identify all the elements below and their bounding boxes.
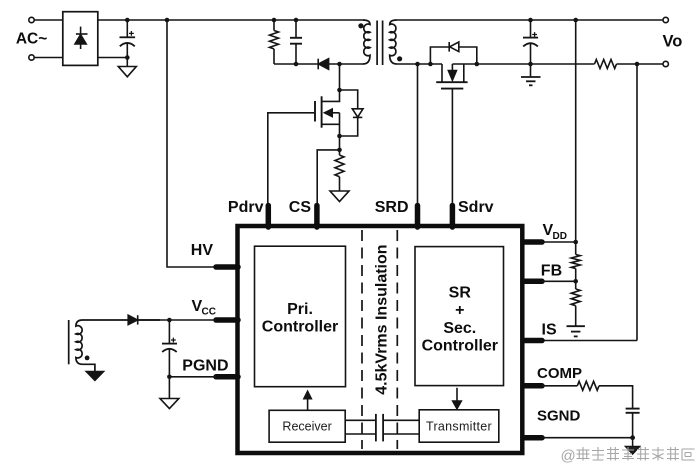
node snubber C bottom [294,62,299,67]
Vo terminal top [663,17,668,22]
pin COMP [523,383,542,389]
pin SGND [523,435,542,441]
svg-text:AC~: AC~ [16,31,47,48]
node bulk cap bottom [125,55,130,60]
node CS [337,148,342,153]
wire bridge bottom right to bulk cap [98,57,128,59]
svg-text:COMP: COMP [537,365,582,382]
aux winding [76,320,160,371]
svg-text:@: @ [561,448,576,465]
FB divider resistor R4 [571,242,580,281]
VCC diode D5 [128,315,138,324]
node SGND [630,435,635,440]
insulation dashed line left [361,230,363,449]
wire bulk cap leads [126,20,128,67]
ground aux winding (solid) [86,371,105,381]
pin Sdrv [450,206,456,228]
bridge diode D1 [75,27,88,49]
wire secondary top rail [397,19,664,21]
svg-text:IS: IS [542,321,557,338]
isolation link wires [345,420,419,434]
wire HV riser [167,20,214,267]
svg-text:PGND: PGND [182,357,228,374]
svg-text:Controller: Controller [262,318,338,335]
earth ground under output cap [521,77,541,85]
junction dots primary side [125,18,639,153]
svg-text:Sec.: Sec. [443,320,476,337]
svg-text:Controller: Controller [422,337,498,354]
aux winding core line [68,320,70,364]
wire FB row [542,280,576,282]
svg-text:SRD: SRD [375,199,409,216]
wire snubber cap leads [295,20,297,64]
arrow SR controller to transmitter [452,388,462,410]
svg-text:CC: CC [202,307,216,318]
svg-text:SR: SR [449,285,472,302]
wire VDD row [542,241,576,243]
wire output cap leads [530,20,532,64]
node HV riser [165,18,170,23]
Receiver box [269,410,345,442]
Pri Controller box [255,246,346,387]
svg-text:HV: HV [191,242,214,259]
COMP resistor R6 [577,381,599,390]
aux phase dot [85,356,90,361]
pin VCC [216,317,238,323]
node SR source [475,62,480,67]
VCC capacitor C4 polarized [162,322,177,399]
output sense resistor R3 [595,60,617,69]
wire AC bottom to bridge [34,57,63,59]
svg-text:DD: DD [553,231,567,242]
wire AC top to bridge [34,19,63,21]
wire primary source net to CS [317,136,339,203]
pin VDD [523,239,542,245]
bridge rectifier box [63,12,98,66]
ground under SGND node [626,438,640,454]
wire secondary bottom rail [397,63,664,65]
node FB [573,279,578,284]
transformer secondary phase dot [397,56,402,61]
svg-text:FB: FB [541,262,562,279]
wire SRD riser [417,64,419,203]
wire COMP row [542,386,633,408]
transformer T1 secondary winding [390,20,397,64]
svg-text:Sdrv: Sdrv [458,199,494,216]
SR Sec Controller box [415,247,504,386]
Transmitter box [419,410,499,442]
ground under VCC cap [160,399,179,409]
IC pin stubs [216,206,542,438]
wire diode to VCC pin [138,319,216,321]
transformer T1 primary winding [363,20,370,64]
node source Q1 [337,134,342,139]
svg-text:Transmitter: Transmitter [426,419,492,433]
transformer primary phase dot [358,23,363,28]
svg-text:Pdrv: Pdrv [228,199,264,216]
FB divider resistor R5 [571,281,580,326]
pin FB [523,279,542,285]
arrow receiver to pri controller [303,391,311,411]
transformer T1 core [377,21,383,66]
pin HV [216,264,238,270]
COMP capacitor C5 [626,409,640,413]
node PGND [167,375,172,380]
pin PGND [216,374,238,380]
svg-text:SGND: SGND [537,408,581,425]
wire COMP cap to SGND [632,413,634,438]
SR MOSFET Q2 [436,64,467,89]
IC U1 outline [238,226,523,453]
node SRD [415,62,420,67]
wire VDD riser [575,20,577,242]
Vo terminal bottom [663,61,668,66]
pin IS [523,338,542,344]
wire Sdrv gate riser [451,89,453,203]
AC input terminal top [29,17,34,22]
svg-text:Vo: Vo [663,33,683,51]
node output cap top [528,18,533,23]
node drain Q1 [337,88,342,93]
pin Pdrv [266,206,272,228]
earth ground under FB divider [567,326,585,336]
node IS sense [635,62,640,67]
wire bridge to top rail [98,19,364,21]
SR body diode D4 [430,42,476,64]
wire primary drain drop [339,64,341,90]
node output cap bottom [528,62,533,67]
node VDD riser top [573,18,578,23]
node snubber C top [294,18,299,23]
svg-text:Pri.: Pri. [287,301,313,318]
snubber capacitor C2 [290,38,302,44]
ground under bulk cap [118,67,136,77]
svg-text:Receiver: Receiver [282,420,331,434]
node SR drain [428,62,433,67]
ground under CS resistor [330,191,349,202]
body diode D3 of Q1 [340,90,364,136]
output capacitor C3 polarized [523,32,538,46]
AC input terminal bottom [29,55,34,60]
primary MOSFET Q1 [315,90,340,136]
pin CS [314,206,320,228]
insulation dashed line right [396,230,398,449]
wire output cap ground lead [530,64,532,77]
isolation capacitors [376,414,383,442]
wire snubber bottom / clamp row [274,63,364,65]
CS sense resistor R2 [335,155,344,177]
wire primary gate to Pdrv [268,113,314,203]
svg-text:4.5kVrms Insulation: 4.5kVrms Insulation [373,244,390,394]
node primary switch [337,62,342,67]
node bulk cap top [125,18,130,23]
wire PGND row [169,376,216,378]
bulk capacitor C1 polarized [120,31,136,46]
snubber resistor R1 [270,31,279,49]
svg-text:+: + [455,302,464,319]
node snubber R top [272,18,277,23]
node VDD divider top [573,240,578,245]
wire IS riser [544,64,637,341]
svg-text:CS: CS [289,199,312,216]
pin SRD [415,206,421,228]
node VCC [167,318,172,323]
wire SGND row [542,437,633,439]
wire CS resistor to ground [339,177,341,191]
clamp diode D2 [318,59,328,70]
wire snubber resistor leads [273,20,275,64]
